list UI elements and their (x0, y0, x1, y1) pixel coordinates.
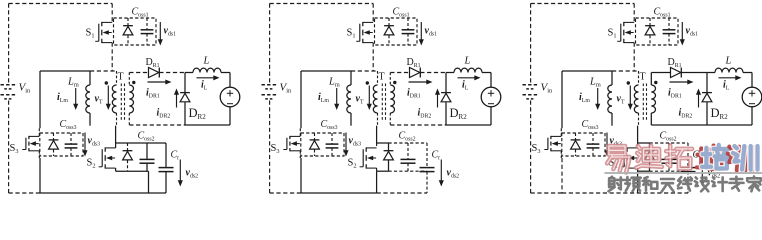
label Coss2 (circuit 1) (138, 131, 155, 143)
inductor Lm (circuit 1) (86, 71, 90, 126)
body diode of S2 (circuit 1) (123, 143, 133, 171)
wire: left edge below S3 (circuit 2) (300, 158, 302, 193)
wire: load bottom lead (circuit 1) (229, 107, 231, 125)
transistor S2 (circuit 3) (621, 147, 638, 168)
body diode of S1 (circuit 3) (645, 18, 655, 45)
snubber box of S3 (circuit 2) (301, 133, 344, 156)
label vds3 (circuit 3) (610, 136, 623, 148)
inductor Lm (circuit 2) (347, 71, 351, 126)
label iL (circuit 1) (201, 80, 208, 92)
polarity dot primary (circuit 3) (627, 81, 630, 84)
wire: S3 source lead (circuit 1) (38, 151, 40, 158)
label Coss1 (circuit 2) (393, 7, 410, 19)
polarity dot primary (circuit 2) (366, 81, 369, 84)
arrow vds3 (circuit 3) (604, 133, 609, 157)
label vds1 (circuit 1) (164, 26, 177, 38)
label L (circuit 2) (464, 56, 471, 67)
diode DR1 (circuit 3) (671, 68, 682, 78)
wire: S2 source drop to rail (circuit 1) (148, 171, 150, 193)
arrow iDR2 (circuit 2) (435, 89, 440, 108)
label iDR1 (circuit 1) (146, 88, 160, 100)
snubber box of S3 (circuit 3) (562, 133, 605, 156)
watermark divider line (605, 172, 762, 174)
label S3 (circuit 1) (10, 143, 19, 155)
arrow vds3 (circuit 1) (82, 133, 87, 157)
label Coss1 (circuit 1) (132, 7, 149, 19)
label T (circuit 1) (118, 72, 124, 83)
load voltage source (circuit 2) (481, 87, 501, 107)
wire: DR1 cathode to freewheel node (circuit 2) (420, 72, 446, 74)
transformer T core (circuit 1) (121, 84, 124, 121)
voltage source Vin battery (circuit 1) (1, 85, 18, 99)
watermark slogan text 射频和天线设计专家 (608, 176, 760, 191)
label vds1 (circuit 2) (425, 26, 438, 38)
wire: bottom input rail (left) (circuit 1) (9, 192, 40, 194)
wire: S1 source lead (circuit 2) (372, 43, 374, 71)
capacitor Coss3 (circuit 2) (326, 133, 339, 156)
wire: battery negative lead (circuit 1) (8, 101, 10, 194)
wire: bottom rail (solid part) (circuit 2) (301, 192, 377, 194)
label vds2 (circuit 2) (447, 168, 460, 180)
wire: S2 drain lead (circuit 2) (376, 143, 378, 148)
wire: Coss2 box bottom edge (dashed part) (circuit 2) (389, 170, 428, 172)
wire: top input rail (circuit 3) (531, 3, 635, 5)
wire: Coss2 box top edge (solid part) (circuit 2) (377, 142, 389, 144)
label Coss1 (circuit 3) (654, 7, 671, 19)
transistor S3 (circuit 3) (544, 136, 561, 151)
wire: battery negative lead (circuit 3) (530, 101, 532, 194)
capacitor Coss1 (circuit 1) (141, 18, 154, 45)
body diode of S2 (conducting) (circuit 2) (384, 143, 394, 171)
diode DR2 (circuit 2) (441, 93, 451, 102)
label iL (circuit 2) (462, 80, 469, 92)
body diode of S2 (conducting) (circuit 3) (645, 143, 655, 171)
wire: battery positive lead (circuit 3) (530, 4, 532, 84)
body diode of S3 (circuit 2) (310, 133, 320, 156)
wire: S2 source lead (circuit 1) (115, 168, 117, 171)
wire: S2 source drop to rail (circuit 2) (376, 171, 378, 193)
arrow iDR2 (circuit 3) (696, 89, 701, 108)
label S3 (circuit 2) (271, 143, 280, 155)
diode DR2 (circuit 3) (702, 93, 712, 102)
wire: DR2 anode lead (circuit 1) (184, 102, 186, 125)
arrow iDR1 (circuit 1) (148, 79, 172, 84)
label vT (circuit 1) (95, 94, 103, 106)
label T (circuit 3) (640, 72, 646, 83)
label L (circuit 3) (725, 56, 732, 67)
arrow vds2 (circuit 3) (700, 160, 705, 187)
inductor L (circuit 3) (707, 68, 752, 72)
label Lm (circuit 2) (328, 77, 340, 89)
label S1 (circuit 1) (86, 28, 95, 40)
label S1 (circuit 2) (347, 28, 356, 40)
wire: primary bottom to S2 drain (circuit 2) (376, 126, 378, 143)
wire: Coss2 box bottom edge (solid part) (circuit 2) (377, 170, 389, 172)
inductor Lm (circuit 3) (608, 71, 612, 126)
label DR1 (circuit 1) (146, 57, 160, 69)
label vds2 (circuit 1) (186, 168, 199, 180)
arrow iLm (circuit 2) (334, 88, 339, 110)
arrow vds1 (circuit 1) (158, 22, 163, 46)
polarity dot secondary (circuit 1) (132, 81, 135, 84)
arrow iLm (circuit 3) (595, 88, 600, 110)
wire: secondary top to DR1 anode (circuit 2) (390, 72, 409, 74)
label S2 (circuit 3) (609, 158, 618, 170)
polarity dot secondary (circuit 3) (654, 81, 657, 84)
label vds1 (circuit 3) (686, 26, 699, 38)
diode DR2 (circuit 1) (180, 93, 190, 102)
arrow vT (circuit 2) (367, 86, 372, 111)
wire: Coss2 box top edge (dashed part) (circuit 2) (389, 142, 428, 144)
wire: S3 drain lead (circuit 1) (38, 128, 40, 136)
capacitor Cr branch (circuit 2) (420, 143, 435, 193)
arrow vds1 (circuit 3) (680, 22, 685, 46)
wire: secondary bottom edge (solid) (circuit 2) (446, 124, 491, 126)
wire: node from S1 source to Lm top (circuit 1) (90, 70, 117, 72)
wire: load bottom lead (circuit 3) (751, 107, 753, 125)
label Vin (circuit 2) (280, 82, 293, 95)
wire: load bottom lead (circuit 2) (490, 107, 492, 125)
wire: secondary bottom edge (return) (circuit 2) (390, 124, 446, 126)
label vT (circuit 3) (617, 94, 625, 106)
wire: Coss2 box bottom edge (dashed part) (circuit 3) (650, 170, 689, 172)
label Coss3 (circuit 2) (321, 119, 338, 131)
capacitor Coss3 (circuit 3) (587, 133, 600, 156)
label iL (circuit 3) (723, 80, 730, 92)
wire: Lm loop left edge (circuit 3) (561, 71, 563, 128)
label iDR2 (circuit 3) (679, 108, 693, 120)
label S3 (circuit 3) (532, 143, 541, 155)
polarity dot secondary (circuit 2) (393, 81, 396, 84)
arrow iDR1 (circuit 2) (409, 79, 433, 84)
wire: DR2 cathode lead (circuit 1) (184, 73, 186, 93)
capacitor Cr branch (circuit 1) (159, 143, 174, 193)
wire: Coss2 box top edge (dashed part) (circuit 3) (650, 142, 689, 144)
wire: DR2 anode lead (circuit 3) (706, 102, 708, 125)
transistor S1 (circuit 2) (356, 22, 373, 43)
transformer T primary winding (circuit 2) (373, 71, 377, 126)
wire: node from S1 source to Lm top (circuit 2) (351, 70, 378, 72)
label L (circuit 1) (203, 56, 210, 67)
load voltage source (circuit 3) (742, 87, 762, 107)
wire: S1 source lead (circuit 3) (633, 43, 635, 71)
snubber box of S3 (circuit 1) (40, 133, 83, 156)
capacitor Coss1 (circuit 3) (663, 18, 676, 45)
wire: Lm loop top edge (circuit 3) (562, 70, 612, 72)
wire: load top lead (circuit 2) (490, 73, 492, 88)
label Coss3 (circuit 1) (60, 119, 77, 131)
wire: Coss2 box bottom edge (solid part) (circuit 3) (638, 170, 650, 172)
arrow iL (circuit 3) (719, 75, 742, 80)
wire: primary bottom to S2 drain (circuit 1) (115, 126, 117, 143)
label iDR1 (circuit 2) (407, 88, 421, 100)
wire: secondary top to DR1 anode (circuit 3) (651, 72, 670, 74)
capacitor Coss2 (circuit 3) (662, 143, 677, 171)
wire: Coss2 box top edge (circuit 1) (116, 142, 166, 144)
wire: battery positive lead (circuit 1) (8, 4, 10, 84)
label DR2 (circuit 2) (450, 106, 468, 121)
wire: S2 source drop to rail (circuit 3) (637, 171, 639, 193)
wire: load top lead (circuit 1) (229, 73, 231, 88)
label DR1 (circuit 3) (668, 57, 682, 69)
snubber box of S1 (circuit 2) (375, 18, 418, 45)
wire: Coss2 box bottom edge (circuit 1) (116, 170, 149, 172)
arrow vT (circuit 3) (628, 86, 633, 111)
wire: bottom rail (solid) (circuit 1) (40, 192, 166, 194)
label Cr (circuit 3) (693, 150, 702, 162)
label Cr (circuit 1) (171, 150, 180, 162)
wire: secondary bottom edge (solid) (circuit 3) (707, 124, 752, 126)
wire: Lm loop left edge (circuit 2) (300, 71, 302, 128)
label iLm (circuit 2) (318, 92, 329, 104)
label Coss3 (circuit 3) (582, 119, 599, 131)
wire: DR2 anode lead (circuit 2) (445, 102, 447, 125)
label Cr (circuit 2) (432, 150, 441, 162)
transistor S3 (circuit 1) (22, 136, 39, 151)
arrow vds1 (circuit 2) (419, 22, 424, 46)
wire: secondary top to DR1 anode (circuit 1) (129, 72, 148, 74)
arrow vds2 (circuit 1) (178, 160, 183, 187)
wire: top input rail (circuit 2) (270, 3, 374, 5)
wire: bottom input rail (left) (circuit 3) (531, 192, 562, 194)
wire: DR2 cathode lead (circuit 2) (445, 73, 447, 93)
label Lm (circuit 3) (589, 77, 601, 89)
diode DR1 (circuit 1) (149, 68, 160, 78)
arrow vds2 (circuit 2) (439, 160, 444, 187)
label Vin (circuit 1) (19, 82, 32, 95)
snubber box of S1 (circuit 3) (636, 18, 679, 45)
wire: S1 drain lead (circuit 2) (372, 4, 374, 23)
label DR1 (circuit 2) (407, 57, 421, 69)
transformer T primary winding (circuit 1) (112, 71, 116, 126)
capacitor Coss2 (circuit 2) (401, 143, 416, 171)
arrow iDR1 (circuit 3) (670, 79, 694, 84)
transformer T primary winding (circuit 3) (634, 71, 638, 126)
label vds2 (circuit 3) (708, 168, 721, 180)
wire: battery positive lead (circuit 2) (269, 4, 271, 84)
label vT (circuit 2) (356, 94, 364, 106)
label vds3 (circuit 1) (88, 136, 101, 148)
body diode of S1 (circuit 2) (384, 18, 394, 45)
inductor L (circuit 1) (185, 68, 230, 72)
wire: bottom input rail (left) (circuit 2) (270, 192, 301, 194)
label S1 (circuit 3) (608, 28, 617, 40)
label iDR1 (circuit 3) (668, 88, 682, 100)
capacitor Coss3 (circuit 1) (65, 133, 78, 156)
wire: S2 drain lead (circuit 3) (637, 143, 639, 148)
transformer T core (circuit 2) (382, 84, 385, 121)
wire: left edge below S3 (circuit 1) (39, 158, 41, 193)
load voltage source (circuit 1) (220, 87, 240, 107)
wire: Lm loop top edge (circuit 2) (301, 70, 351, 72)
wire: bottom rail (dashed) (circuit 3) (562, 192, 688, 194)
voltage source Vin battery (circuit 3) (523, 85, 540, 99)
wire: S2 source lead (circuit 2) (376, 168, 378, 171)
label vds3 (circuit 2) (349, 136, 362, 148)
wire: node from S1 source to Lm top (circuit 3) (612, 70, 639, 72)
label S2 (circuit 2) (348, 158, 357, 170)
transistor S1 (circuit 1) (95, 22, 112, 43)
label iDR2 (circuit 2) (418, 108, 432, 120)
label T (circuit 2) (379, 72, 385, 83)
body diode of S1 (circuit 1) (123, 18, 133, 45)
arrow iL (circuit 2) (458, 75, 481, 80)
wire: primary bottom to S2 drain (circuit 3) (637, 126, 639, 143)
wire: S3 source lead (circuit 2) (299, 151, 301, 158)
body diode of S3 (circuit 1) (49, 133, 59, 156)
wire: S1 drain lead (circuit 3) (633, 4, 635, 23)
voltage source Vin battery (circuit 2) (262, 85, 279, 99)
wire: S2 drain lead (circuit 1) (115, 143, 117, 148)
label iDR2 (circuit 1) (157, 108, 171, 120)
wire: Lm loop top edge (circuit 1) (40, 70, 90, 72)
wire: secondary bottom edge (return) (circuit 1) (129, 124, 185, 126)
transistor S2 (circuit 2) (360, 147, 377, 168)
transformer T secondary winding (circuit 1) (129, 73, 133, 126)
transistor S1 (circuit 3) (617, 22, 634, 43)
capacitor Coss2 (circuit 1) (140, 143, 155, 171)
body diode of S3 (circuit 3) (571, 133, 581, 156)
arrow iLm (circuit 1) (73, 88, 78, 110)
wire: S1 source lead (circuit 1) (111, 43, 113, 71)
inductor L (circuit 2) (446, 68, 491, 72)
wire: Lm loop left edge (circuit 1) (39, 71, 41, 128)
wire: top input rail (circuit 1) (9, 3, 113, 5)
wire: battery negative lead (circuit 2) (269, 101, 271, 194)
capacitor Coss1 (circuit 2) (402, 18, 415, 45)
wire: S3 drain lead (circuit 3) (560, 128, 562, 136)
wire: S1 drain lead (circuit 1) (111, 4, 113, 23)
wire: DR1 cathode to freewheel node (circuit 1) (159, 72, 185, 74)
diode DR1 (circuit 2) (410, 68, 421, 78)
label DR2 (circuit 1) (189, 106, 207, 121)
arrow vds3 (circuit 2) (343, 133, 348, 157)
label Vin (circuit 3) (541, 82, 554, 95)
wire: secondary bottom edge (solid) (circuit 1) (185, 124, 230, 126)
arrow vT (circuit 1) (106, 86, 111, 111)
wire: bottom rail (dashed part) (circuit 2) (377, 192, 427, 194)
label Lm (circuit 1) (67, 77, 79, 89)
wire: left edge below S3 (circuit 3) (561, 158, 563, 193)
label iLm (circuit 3) (579, 92, 590, 104)
wire: S3 source lead (circuit 3) (560, 151, 562, 158)
wire: load top lead (circuit 3) (751, 73, 753, 88)
wire: Coss2 box top edge (solid part) (circuit 3) (638, 142, 650, 144)
watermark logo text 易迪拓培训 (607, 145, 757, 173)
transistor S2 (circuit 1) (99, 147, 116, 168)
label Coss2 (circuit 3) (660, 131, 677, 143)
snubber box of S1 (circuit 1) (114, 18, 157, 45)
wire: S3 drain lead (circuit 2) (299, 128, 301, 136)
label DR2 (circuit 3) (711, 106, 729, 121)
label S2 (circuit 1) (87, 158, 96, 170)
capacitor Cr branch (circuit 3) (681, 143, 696, 193)
label Coss2 (circuit 2) (399, 131, 416, 143)
wire: S2 source lead (circuit 3) (637, 168, 639, 171)
label iLm (circuit 1) (57, 92, 68, 104)
transformer T secondary winding (circuit 3) (651, 73, 655, 126)
transformer T core (circuit 3) (643, 84, 646, 121)
wire: DR2 cathode lead (circuit 3) (706, 73, 708, 93)
wire: secondary bottom edge (return) (circuit 3) (651, 124, 707, 126)
transformer T secondary winding (circuit 2) (390, 73, 394, 126)
arrow iDR2 (circuit 1) (174, 89, 179, 108)
transistor S3 (circuit 2) (283, 136, 300, 151)
wire: DR1 cathode to freewheel node (circuit 3) (681, 72, 707, 74)
arrow iL (circuit 1) (197, 75, 220, 80)
polarity dot primary (circuit 1) (105, 81, 108, 84)
